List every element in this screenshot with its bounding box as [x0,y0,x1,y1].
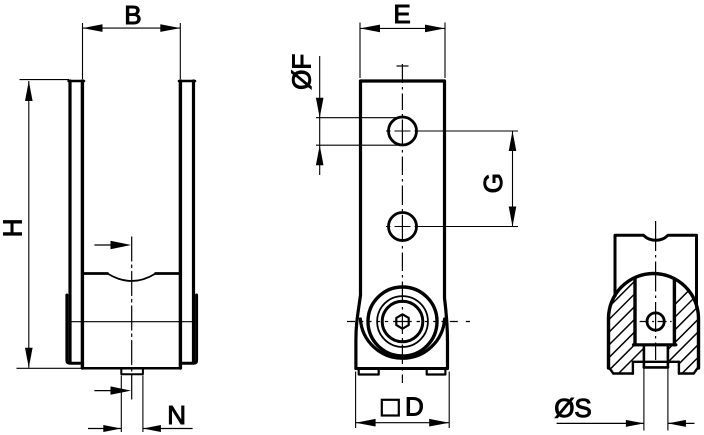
G dimension line [512,131,514,227]
upper hole [389,117,417,145]
svg-text:N: N [167,400,186,430]
svg-text:E: E [393,0,410,29]
dome outline [609,274,699,369]
right foot with chamfer [679,362,699,374]
vertical centerline [131,237,133,400]
base bottom edge [356,367,448,370]
N left extension line [120,376,122,433]
bushing flange right edge [180,295,196,363]
E arrow right [425,25,445,33]
H bottom extension line [17,367,86,369]
square symbol [382,400,399,416]
D arrow right [429,419,449,427]
ØF lower tangent extension [316,144,399,146]
channel bottom [634,343,676,346]
N arrow pointing left [143,425,161,432]
G arrow down [509,207,517,227]
body right side with flare to base [445,81,448,369]
B arrow left [83,24,103,32]
pin cross hole [647,313,664,330]
N dimension line left segment [88,428,121,430]
D dimension line [356,422,450,424]
svg-text:D: D [405,392,424,422]
B right extension line [179,23,181,79]
body bottom edge [84,367,179,370]
body top edge with concave dip [84,272,179,275]
bushing flange left edge [67,295,83,363]
E arrow left [360,25,380,33]
H top extension line [20,79,70,81]
fork right arm outer edge [192,81,195,362]
B arrow right [160,24,180,32]
D right extension line [448,372,450,429]
channel right side [673,280,676,345]
left foot [359,369,379,375]
svg-text:B: B [124,0,141,30]
boss middle circle [377,296,428,347]
lower leader arrow to centerline [95,390,111,392]
fork right arm inner edge [179,81,182,368]
fork left arm top edge [69,80,84,83]
D left extension line [355,372,357,429]
D arrow left [356,419,376,427]
S left extension line [643,368,645,431]
channel left side [633,278,636,345]
fork right arm top edge [179,80,195,83]
svg-text:H: H [0,219,28,238]
N dimension line right segment [143,428,193,430]
boss inner circle [382,301,423,342]
S arrow pointing right [626,420,644,427]
E right extension line [444,23,446,79]
ØF arrow up [316,145,324,165]
bar half-round end arc [360,319,444,358]
B left extension line [82,23,84,79]
S right extension line [667,368,669,431]
S dimension line left segment [557,422,644,424]
E dimension line [360,27,445,29]
pin end face [644,366,668,369]
left foot with chamfer [609,362,633,374]
fork left arm outer edge [68,81,71,362]
vertical centerline [401,64,403,383]
H arrow up [25,81,33,101]
top plate with notch [615,235,697,307]
body top saddle arc [108,274,156,282]
B dimension line [83,27,181,29]
ØF arrow down [316,98,324,118]
right foot [427,369,446,375]
E left extension line [359,23,361,79]
ØF dimension line [319,56,321,175]
pin tangent horizontal line [67,321,198,323]
hex socket [396,314,408,328]
S dimension line right segment [668,422,695,424]
lower hole crosshair / G extension [386,226,518,228]
pin stub below body [121,368,143,374]
hatching right region [599,255,704,380]
fork left arm inner edge [81,81,84,368]
boss horizontal centerline [347,321,470,323]
lower hole [389,213,417,241]
recess bottom line [633,361,679,363]
ØF upper tangent extension [316,117,404,119]
upper leader arrow to centerline [95,244,111,246]
hole horizontal centerline [640,321,672,323]
body top edge [361,79,445,82]
hatching left region [523,255,704,380]
vertical centerline [655,221,657,360]
G arrow up [509,131,517,151]
svg-text:ØF: ØF [287,54,317,90]
H arrow down [25,348,33,368]
svg-text:ØS: ØS [554,393,592,423]
boss outer circle [368,287,437,356]
N arrow pointing right [103,425,121,432]
body left side with flare to base [356,81,361,369]
svg-text:G: G [478,173,508,193]
upper hole crosshair / G extension [386,130,518,132]
pin slot right side [667,345,670,368]
centerline start tick [397,65,409,67]
H dimension line [28,81,30,368]
N right extension line [142,376,144,433]
pin slot left side [643,345,646,368]
S arrow pointing left [668,420,686,427]
